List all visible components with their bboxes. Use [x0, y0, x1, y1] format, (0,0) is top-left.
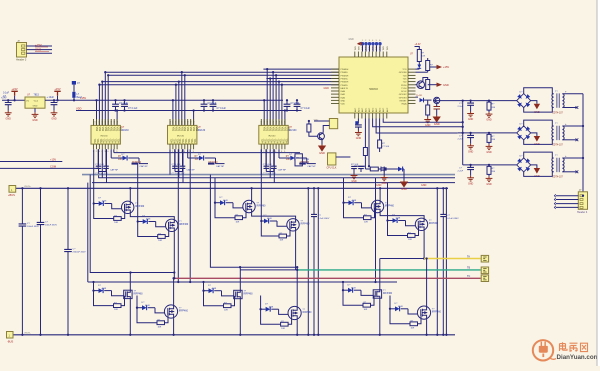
transistor TA2 IRFP460	[166, 219, 178, 231]
pin stub top 7	[278, 119, 280, 125]
wire bridge bottom to xfmr	[524, 108, 554, 113]
svg-text:PWM0L: PWM0L	[341, 72, 349, 74]
svg-text:IRFP460: IRFP460	[134, 293, 144, 295]
wire cap lead2	[470, 138, 472, 144]
wire gate feed	[343, 289, 348, 291]
MCU right pin 8	[408, 90, 416, 92]
wire J3 pin 4	[556, 206, 579, 208]
gate diode	[393, 218, 398, 223]
junction	[266, 68, 268, 70]
gate driver IC U2 IR2110	[91, 125, 120, 144]
junction	[172, 99, 174, 101]
capacitor decoupling	[112, 104, 119, 106]
wire signal feed	[272, 72, 274, 125]
gate driver IC U4 IR2110	[259, 125, 288, 144]
MCU bottom pin 4	[364, 113, 366, 119]
capacitor decoupling	[121, 104, 128, 106]
ground at C1	[5, 111, 12, 116]
junction	[95, 99, 97, 101]
MCU top pin 1	[354, 52, 356, 58]
svg-text:VBUS-: VBUS-	[24, 333, 31, 335]
junction	[239, 266, 241, 268]
junction	[173, 277, 175, 279]
svg-text:0.1uF: 0.1uF	[304, 159, 310, 161]
junction	[56, 99, 58, 101]
port TA	[481, 255, 488, 262]
svg-text:IRFP460: IRFP460	[383, 293, 393, 295]
wire C16 down	[357, 127, 359, 130]
svg-text:C? 0.1uF: C? 0.1uF	[95, 164, 105, 166]
power flag +15V	[437, 65, 443, 69]
svg-text:IR2130: IR2130	[268, 136, 276, 138]
svg-text:5: 5	[105, 151, 106, 153]
junction	[39, 187, 41, 189]
junction	[92, 289, 94, 291]
junction	[203, 109, 205, 111]
junction	[582, 157, 584, 159]
wire R11 top	[427, 58, 429, 61]
junction	[308, 120, 310, 122]
svg-text:VDD: VDD	[76, 106, 82, 110]
transistor TA4 IRFP460	[164, 305, 177, 318]
MCU top pin 3	[361, 52, 363, 58]
wire bus vert lower	[40, 225, 42, 335]
wire local cap lead	[265, 169, 267, 172]
wire J1 pin 3	[27, 52, 53, 54]
wire signal feed	[266, 69, 268, 125]
wire secondary top	[562, 125, 583, 127]
wire bootstrap	[307, 163, 316, 165]
junction	[462, 126, 464, 128]
svg-text:CAP NP: CAP NP	[140, 165, 149, 168]
wire bus vert upper	[67, 188, 69, 249]
svg-text:HIN: HIN	[117, 120, 119, 124]
junction	[436, 187, 438, 189]
pin stub bottom 5	[104, 144, 106, 149]
svg-text:GND: GND	[486, 119, 492, 122]
MCU left pin 7	[331, 87, 339, 89]
junction	[313, 187, 315, 189]
wire +15V rail	[73, 99, 283, 101]
svg-text:GND: GND	[341, 100, 346, 102]
junction	[462, 99, 464, 101]
svg-text:HIN: HIN	[96, 120, 98, 124]
header pin dot 5	[375, 42, 378, 45]
wire resistor branch	[261, 309, 281, 324]
svg-text:100uF 450V: 100uF 450V	[45, 225, 57, 227]
svg-text:+3.3V: +3.3V	[415, 44, 422, 46]
wire resistor branch	[215, 203, 235, 218]
resistor channel	[487, 166, 491, 174]
svg-text:ZDT4-107: ZDT4-107	[553, 177, 564, 179]
svg-text:TXD0: TXD0	[401, 88, 407, 90]
capacitor local	[96, 166, 102, 168]
svg-text:ADC: ADC	[357, 107, 360, 112]
MCU bottom pin 1	[354, 113, 356, 119]
svg-text:10R: 10R	[364, 309, 368, 311]
svg-text:HIN: HIN	[185, 120, 187, 124]
wire cap lead	[296, 100, 298, 104]
wire resistor to gate	[165, 227, 169, 237]
svg-text:10R: 10R	[158, 240, 162, 242]
capacitor decoupling	[201, 104, 208, 106]
ground below C16	[355, 131, 362, 136]
wire gate feed	[94, 203, 99, 205]
wire resistor branch	[94, 291, 114, 306]
bridge rectifier D3	[517, 158, 531, 172]
svg-text:TA: TA	[467, 255, 470, 258]
wire caps join	[175, 171, 183, 173]
svg-text:GND: GND	[443, 83, 449, 87]
junction	[175, 84, 177, 86]
wire phase A sense	[90, 175, 174, 273]
wire low gate vertical 1	[177, 149, 179, 282]
wire cap lead2	[296, 107, 298, 111]
wire to bootstrap diode	[110, 149, 112, 158]
wire cap lead2	[470, 170, 472, 176]
svg-text:VB1: VB1	[95, 127, 98, 132]
svg-text:GPIOE2: GPIOE2	[399, 94, 408, 96]
junction	[342, 202, 344, 204]
junction	[116, 109, 118, 111]
resistor R13	[426, 105, 430, 115]
ground below C19	[381, 176, 388, 181]
svg-text:GND: GND	[468, 118, 474, 121]
wire TC1 source to TC2 drain	[380, 213, 424, 218]
junction	[582, 195, 584, 197]
pin stub top 8	[190, 119, 192, 125]
wire diode anode	[111, 157, 122, 159]
wire drain TA1	[129, 188, 131, 201]
wire TA4 source down	[173, 318, 175, 335]
wire low gate vertical 3	[375, 178, 377, 282]
wire gate feed	[138, 221, 143, 223]
junction	[469, 132, 471, 134]
svg-text:ADC: ADC	[361, 107, 364, 112]
wire VDD rail	[76, 110, 302, 112]
wire phase C down	[423, 231, 425, 259]
junction	[172, 334, 174, 336]
wire res lead2	[488, 110, 490, 112]
junction	[93, 202, 95, 204]
wire gate feed	[94, 290, 99, 292]
resistor channel	[487, 102, 491, 110]
wire to gate	[233, 203, 243, 208]
ground below cap	[467, 112, 474, 117]
wire local cap lead	[174, 169, 176, 172]
transistor TA1 IRFP460	[122, 201, 134, 213]
transistor Q11	[434, 97, 440, 103]
junction	[137, 220, 139, 222]
wire resistor branch	[204, 291, 224, 306]
svg-text:VB1: VB1	[101, 127, 104, 132]
junction	[129, 334, 131, 336]
junction	[278, 80, 280, 82]
pin stub bottom 2	[263, 144, 265, 149]
MCU top pin 9	[382, 52, 384, 58]
clock buffer box	[328, 153, 336, 165]
junction	[92, 281, 94, 283]
crystal Y1	[329, 119, 337, 129]
wire diode cathode	[296, 157, 307, 159]
MCU bottom pin 5	[368, 113, 370, 119]
capacitor C16	[355, 125, 362, 127]
gate resistor R?	[408, 234, 416, 238]
svg-text:7815: 7815	[34, 94, 40, 97]
wire diode cathode	[271, 308, 278, 310]
wire diode cathode	[226, 202, 233, 204]
junction	[129, 187, 131, 189]
ground at regulator	[32, 112, 39, 117]
svg-text:VB1: VB1	[277, 127, 280, 132]
pin stub top 6	[184, 119, 186, 125]
wire TC4 drain up	[426, 259, 428, 307]
wire secondary bottom	[562, 139, 577, 141]
wire bus vert upper	[21, 188, 23, 223]
wire signal feed	[107, 75, 109, 125]
svg-text:RXD0: RXD0	[401, 85, 407, 87]
wire IC pin down d	[273, 149, 275, 182]
MCU top pin 4	[364, 52, 366, 58]
junction	[212, 99, 214, 101]
wire gate feed vertical	[93, 149, 95, 203]
svg-text:HIN: HIN	[99, 120, 101, 124]
wire cap lead2	[212, 107, 214, 111]
pin stub bottom 4	[101, 144, 103, 149]
svg-text:PWM1H: PWM1H	[341, 75, 349, 77]
junction	[203, 99, 205, 101]
MCU left pin 12	[331, 103, 339, 105]
svg-text:C? 0.1uF: C? 0.1uF	[217, 108, 227, 110]
junction	[462, 121, 464, 123]
capacitor local	[271, 166, 277, 168]
junction	[296, 266, 298, 268]
svg-text:HIN: HIN	[105, 120, 107, 124]
svg-text:VB1: VB1	[107, 127, 110, 132]
svg-text:TMS: TMS	[383, 46, 385, 51]
svg-text:PWM2L: PWM2L	[341, 85, 349, 87]
svg-text:C? 0.1uF: C? 0.1uF	[172, 164, 182, 166]
MCU left pin 10	[331, 96, 339, 98]
wire diode cathode	[270, 220, 277, 222]
svg-text:0.1uF 630V: 0.1uF 630V	[447, 218, 459, 220]
svg-text:HIN: HIN	[261, 120, 263, 124]
MCU U10 DSP56F803	[339, 57, 408, 113]
svg-text:PWM1L: PWM1L	[341, 79, 349, 81]
wire snubber lower	[313, 217, 315, 335]
pin stub top 1	[169, 119, 171, 125]
svg-text:GND: GND	[32, 119, 38, 122]
watermark dianyuan logo	[533, 340, 556, 360]
junction	[296, 99, 298, 101]
wire R13 down	[427, 115, 429, 118]
svg-text:IRFP460: IRFP460	[179, 224, 189, 226]
wire to gate	[112, 291, 124, 296]
bootstrap diode D?	[123, 156, 128, 161]
capacitor C2	[51, 103, 58, 105]
MCU right pin 5	[408, 81, 416, 83]
svg-text:630V: 630V	[304, 162, 310, 164]
wire to R15	[365, 168, 370, 170]
wire to gate	[156, 222, 166, 227]
pin stub top 6	[275, 119, 277, 125]
pin stub bottom 3	[175, 144, 177, 149]
wire drain TC1	[379, 188, 381, 200]
svg-text:ADC: ADC	[354, 107, 357, 112]
svg-text:GND: GND	[486, 183, 492, 186]
junction	[13, 99, 15, 101]
wire base Q10	[416, 84, 418, 86]
svg-text:2: 2	[365, 40, 366, 42]
wire diode cathode	[104, 290, 111, 292]
transistor Q12	[318, 133, 325, 140]
svg-text:VBUS+: VBUS+	[24, 186, 32, 188]
wire resistor to gate	[231, 296, 235, 306]
wire resistor to gate	[418, 314, 422, 324]
wire caps join	[99, 171, 107, 173]
wire low gate vertical 2	[189, 149, 191, 282]
svg-text:VB1: VB1	[183, 127, 186, 132]
gate resistor R?	[410, 322, 418, 326]
bus gray mid	[82, 174, 455, 176]
wire bead top	[73, 85, 75, 92]
junction	[462, 132, 464, 134]
svg-text:HIN: HIN	[282, 120, 284, 124]
port TB	[481, 267, 488, 274]
svg-text:GND: GND	[356, 137, 362, 140]
capacitor decoupling	[294, 104, 301, 106]
wire to bootstrap diode	[187, 149, 189, 158]
wire VDD feed	[193, 111, 195, 126]
wire TA3 source down	[129, 299, 131, 335]
wire R14 down	[364, 156, 366, 164]
pin stub top 6	[107, 119, 109, 125]
svg-text:HIN: HIN	[114, 120, 116, 124]
junction	[250, 187, 252, 189]
wire secondary top	[562, 157, 583, 159]
pin stub top 8	[113, 119, 115, 125]
wire bridge to gnd	[531, 133, 537, 136]
junction	[239, 334, 241, 336]
svg-text:TMS: TMS	[358, 46, 360, 51]
MCU bottom pin 8	[379, 113, 381, 119]
junction	[379, 187, 381, 189]
svg-text:2: 2	[96, 151, 97, 153]
transistor TB1 IRFP460	[243, 200, 255, 212]
transistor TB3 IRFP460	[234, 290, 242, 298]
svg-text:+15V: +15V	[80, 96, 86, 100]
wire J1 pin 2	[27, 49, 53, 51]
svg-text:10R: 10R	[224, 309, 228, 311]
wire feed ch2	[376, 119, 458, 134]
svg-text:HIN: HIN	[276, 120, 278, 124]
svg-text:C? 22uF: C? 22uF	[119, 103, 128, 105]
wire J3 pin 1	[556, 195, 579, 197]
wire diode cathode	[205, 157, 216, 159]
svg-text:GND: GND	[6, 117, 12, 120]
wire +BUS rail	[16, 187, 448, 189]
transistor TB4 IRFP460	[288, 306, 301, 319]
wire -BUS rail	[13, 334, 456, 336]
wire J3 pin 3	[556, 203, 579, 205]
wire signal feed	[278, 82, 280, 126]
junction	[101, 80, 103, 82]
wire resistor to gate	[371, 295, 375, 305]
wire phase B jog	[296, 267, 298, 270]
bootstrap diode D?	[290, 156, 295, 161]
svg-text:VB1: VB1	[263, 127, 266, 132]
wire IC pin down c	[101, 149, 103, 178]
MCU top pin 5	[368, 52, 370, 58]
svg-text:C? 0.1uF: C? 0.1uF	[263, 164, 273, 166]
wire cap lead2	[203, 107, 205, 111]
svg-text:CAP NP: CAP NP	[187, 169, 196, 172]
wire regulator gnd	[34, 108, 36, 112]
MCU top pin 2	[357, 52, 359, 58]
wire PWM bus 5	[102, 81, 339, 83]
MCU right pin 11	[408, 99, 416, 101]
junction	[123, 109, 125, 111]
pin stub bottom 2	[96, 144, 98, 149]
wire cap lead	[470, 101, 472, 103]
MCU left pin 11	[331, 99, 339, 101]
svg-text:GND: GND	[324, 87, 330, 90]
wire TB3 drain up	[239, 267, 241, 290]
svg-text:6: 6	[379, 40, 380, 42]
wire signal feed	[181, 72, 183, 125]
gate diode	[220, 200, 225, 205]
pin stub top 1	[93, 119, 95, 125]
wire resistor branch	[390, 309, 410, 324]
capacitor channel	[467, 135, 474, 137]
junction	[469, 99, 471, 101]
capacitor decoupling	[284, 104, 291, 106]
junction	[307, 187, 309, 189]
svg-text:C? 22uF: C? 22uF	[208, 103, 217, 105]
capacitor local	[172, 166, 178, 168]
wire diode cathode	[354, 289, 361, 291]
pin stub bottom 5	[272, 144, 274, 149]
MCU right pin 6	[408, 84, 416, 86]
svg-text:10K: 10K	[195, 159, 200, 161]
MCU bottom pin 3	[361, 113, 363, 119]
capacitor decoupling	[210, 104, 217, 106]
svg-text:Vout: Vout	[34, 99, 39, 102]
capacitor C19	[381, 168, 386, 170]
MCU left pin 4	[331, 78, 339, 80]
wire diode cathode	[104, 203, 111, 205]
transformer T1 ZDT4-107	[552, 93, 564, 107]
svg-text:C? 22uF: C? 22uF	[291, 103, 300, 105]
wire diode anode	[188, 157, 199, 159]
wire to gate	[277, 221, 287, 226]
svg-text:TC: TC	[467, 275, 470, 278]
junction	[202, 281, 204, 283]
wire VCC feed	[96, 100, 98, 125]
wire to gate	[406, 221, 416, 226]
svg-text:ADC: ADC	[372, 107, 375, 112]
wire gate feed vertical	[214, 178, 216, 203]
pin stub top 4	[269, 119, 271, 125]
wire header to pin	[365, 45, 367, 51]
wire resistor to gate	[165, 313, 169, 323]
gate diode	[142, 305, 147, 310]
pin stub bottom 9	[193, 144, 195, 149]
svg-text:HIN: HIN	[190, 120, 192, 124]
svg-text:GND: GND	[349, 39, 354, 41]
svg-text:Header 3: Header 3	[16, 59, 27, 62]
junction	[317, 187, 319, 189]
